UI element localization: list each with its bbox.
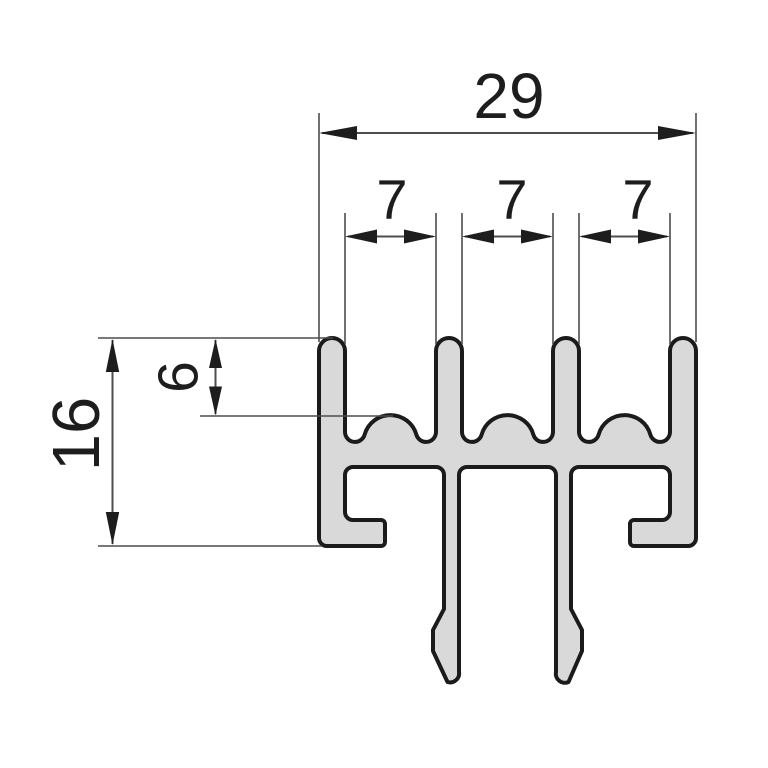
extension line, right edge of profile (29 dim) bbox=[695, 113, 697, 342]
arrowhead, 7 dim slot 1 left bbox=[345, 230, 377, 244]
extension line, slot 3 left edge (7 dim) bbox=[578, 213, 580, 344]
arrowhead, 16 dim top bbox=[106, 339, 119, 372]
arrowhead, 7 dim slot 2 left bbox=[462, 230, 494, 244]
extension line, slot 2 left edge (7 dim) bbox=[461, 213, 463, 344]
extension line, slot 2 right edge (7 dim) bbox=[552, 213, 554, 344]
arrowhead, 7 dim slot 2 right bbox=[521, 230, 553, 244]
arrowhead, 7 dim slot 1 right bbox=[404, 230, 436, 244]
dimension line 7 (slot 1) bbox=[348, 236, 433, 238]
extension line, slot 1 left edge (7 dim) bbox=[344, 213, 346, 344]
extension line, profile bottom (16 dim) bbox=[98, 545, 322, 547]
extension line, slot 3 right edge (7 dim) bbox=[669, 213, 671, 344]
svg-text:7: 7 bbox=[622, 168, 653, 231]
arrowhead, 6 dim top bbox=[209, 339, 222, 368]
arrowhead, 29 dim left bbox=[319, 126, 357, 140]
dimension line 6 bbox=[215, 340, 217, 414]
svg-text:6: 6 bbox=[147, 361, 211, 393]
arrowhead, 7 dim slot 3 right bbox=[638, 230, 670, 244]
dimension line 7 (slot 2) bbox=[465, 236, 550, 238]
dimension line 16 bbox=[112, 340, 114, 544]
svg-text:7: 7 bbox=[496, 168, 527, 231]
dimension line 7 (slot 3) bbox=[582, 236, 667, 238]
extension line, slot 1 right edge (7 dim) bbox=[435, 213, 437, 344]
extrusion profile cross-section (29x16 mm rail with three 7mm slots and two snap-in legs) bbox=[319, 338, 696, 683]
dimension line 29 bbox=[322, 132, 693, 134]
svg-text:16: 16 bbox=[39, 397, 114, 472]
svg-text:7: 7 bbox=[376, 168, 407, 231]
arrowhead, 7 dim slot 3 left bbox=[579, 230, 611, 244]
arrowhead, 29 dim right bbox=[658, 126, 696, 140]
extension line, slot floor depth (6 dim) bbox=[200, 415, 393, 417]
extension line, left edge of profile (29 dim) bbox=[318, 113, 320, 342]
arrowhead, 6 dim bottom bbox=[209, 387, 222, 416]
extension line, profile top (16 and 6 dims) bbox=[98, 337, 333, 339]
arrowhead, 16 dim bottom bbox=[106, 512, 119, 545]
svg-text:29: 29 bbox=[473, 60, 544, 132]
